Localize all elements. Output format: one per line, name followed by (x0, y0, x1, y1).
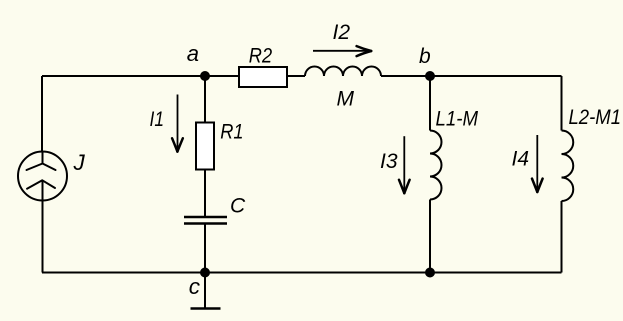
svg-text:I1: I1 (150, 108, 165, 131)
svg-text:L2-M1: L2-M1 (569, 106, 622, 129)
svg-text:L1-M: L1-M (436, 107, 479, 130)
svg-text:I2: I2 (333, 21, 351, 44)
svg-text:I4: I4 (512, 148, 530, 171)
svg-text:b: b (419, 45, 431, 68)
svg-text:R1: R1 (220, 120, 243, 143)
svg-text:R2: R2 (249, 44, 273, 67)
svg-text:J: J (73, 150, 86, 175)
svg-text:M: M (337, 88, 355, 111)
svg-text:a: a (187, 41, 199, 66)
svg-text:C: C (230, 194, 246, 217)
svg-text:c: c (189, 274, 200, 299)
svg-text:I3: I3 (380, 150, 398, 173)
